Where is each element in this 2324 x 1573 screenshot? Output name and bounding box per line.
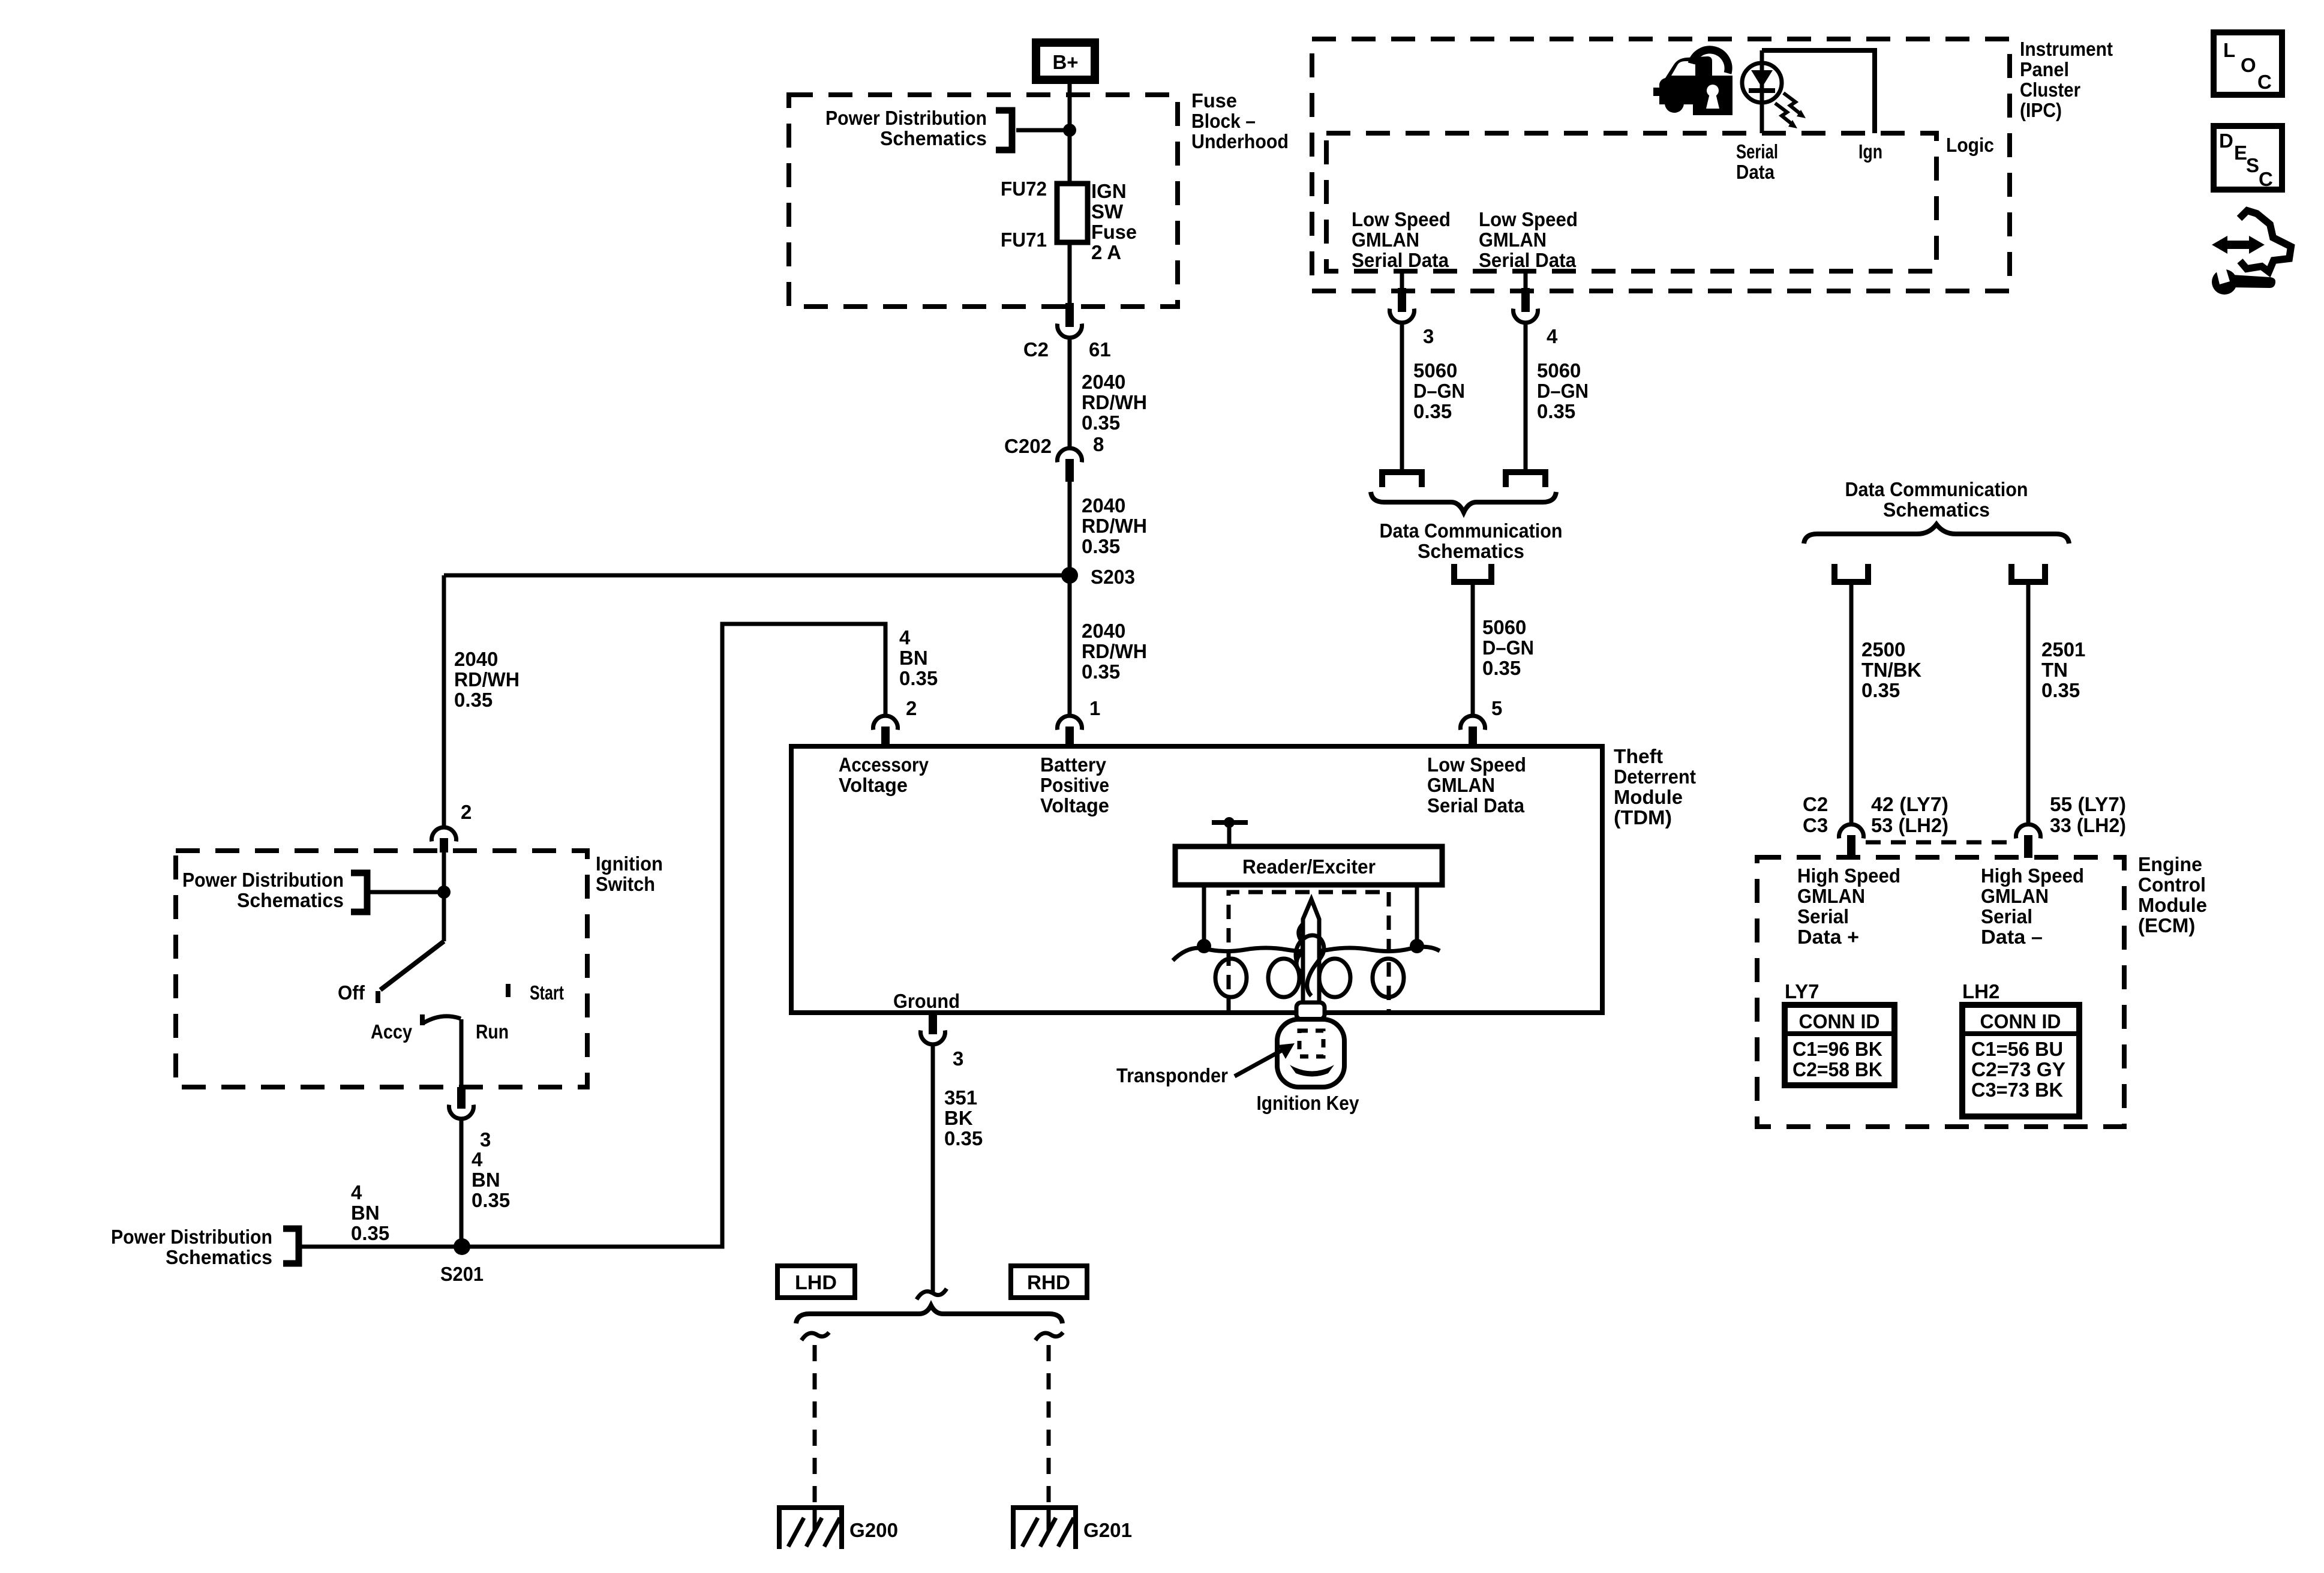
antenna symbol above Reader/Exciter xyxy=(1212,817,1248,846)
svg-text:SW: SW xyxy=(1091,200,1124,223)
svg-text:TN: TN xyxy=(2041,659,2068,681)
svg-text:CONN ID: CONN ID xyxy=(1799,1010,1880,1032)
svg-text:Low Speed: Low Speed xyxy=(1479,208,1578,230)
svg-text:D–GN: D–GN xyxy=(1537,380,1589,402)
transponder dashed square xyxy=(1299,1031,1323,1056)
label Power Distribution Schematics xyxy=(825,107,987,149)
svg-text:FU72: FU72 xyxy=(1001,178,1047,200)
svg-text:Serial Data: Serial Data xyxy=(1352,249,1449,271)
connector ignition switch pin 2 xyxy=(432,801,472,852)
svg-text:BN: BN xyxy=(472,1169,500,1191)
svg-text:Logic: Logic xyxy=(1946,134,1994,156)
svg-text:Schematics: Schematics xyxy=(237,889,344,911)
svg-text:D–GN: D–GN xyxy=(1413,380,1465,402)
label High Speed GMLAN Serial Data + xyxy=(1797,864,1900,948)
wire tap to bracket xyxy=(1016,128,1070,133)
ignition switch dashed box xyxy=(176,851,587,1087)
svg-text:0.35: 0.35 xyxy=(899,667,938,689)
label Data Communication Schematics (center) xyxy=(1380,520,1563,562)
label Engine Control Module (ECM) xyxy=(2138,853,2207,936)
label Transponder with arrow xyxy=(1116,1043,1295,1086)
svg-text:0.35: 0.35 xyxy=(351,1222,389,1244)
svg-text:0.35: 0.35 xyxy=(944,1127,983,1149)
svg-text:Control: Control xyxy=(2138,873,2206,896)
RHD option box xyxy=(1011,1266,1087,1298)
svg-text:0.35: 0.35 xyxy=(454,689,493,711)
coil loop 4 xyxy=(1373,959,1404,997)
svg-text:S201: S201 xyxy=(440,1263,484,1285)
svg-text:Low Speed: Low Speed xyxy=(1352,208,1451,230)
Accy contact xyxy=(371,1014,422,1043)
svg-text:C3=73 BK: C3=73 BK xyxy=(1971,1079,2063,1101)
svg-text:RD/WH: RD/WH xyxy=(1082,515,1147,537)
svg-text:Power Distribution: Power Distribution xyxy=(111,1226,272,1248)
label Data Communication Schematics (right) xyxy=(1845,478,2028,521)
svg-text:Low Speed: Low Speed xyxy=(1427,754,1526,776)
svg-text:Instrument: Instrument xyxy=(2020,38,2113,60)
LED indicator symbol xyxy=(1742,50,1782,133)
svg-text:42 (LY7): 42 (LY7) xyxy=(1871,793,1948,815)
svg-text:C2: C2 xyxy=(1023,338,1049,361)
svg-text:Schematics: Schematics xyxy=(166,1246,272,1268)
svg-text:2: 2 xyxy=(906,697,917,719)
svg-text:LH2: LH2 xyxy=(1962,980,1999,1002)
svg-text:0.35: 0.35 xyxy=(1537,400,1575,422)
bracket: Power Distribution Schematics reference (S201) xyxy=(283,1229,299,1263)
B+ battery terminal box xyxy=(1036,43,1095,80)
svg-text:4: 4 xyxy=(899,626,911,649)
svg-text:RHD: RHD xyxy=(1027,1271,1070,1293)
svg-text:(IPC): (IPC) xyxy=(2020,99,2062,121)
fuse FU72/FU71 IGN SW Fuse 2A xyxy=(1057,184,1088,242)
squiggle left ground lead xyxy=(801,1332,829,1340)
svg-text:Voltage: Voltage xyxy=(1040,794,1109,816)
svg-text:C2=73 GY: C2=73 GY xyxy=(1971,1058,2065,1080)
svg-text:GMLAN: GMLAN xyxy=(1352,229,1419,251)
svg-text:L: L xyxy=(2223,39,2235,61)
svg-text:Serial Data: Serial Data xyxy=(1427,794,1525,816)
ignition key blade xyxy=(1296,899,1324,1002)
wire S203 to TDM pin 1, circuit 2040 RD/WH 0.35 xyxy=(1068,575,1072,715)
connector ignition switch pin 3 xyxy=(449,1087,491,1151)
svg-text:GMLAN: GMLAN xyxy=(1479,229,1547,251)
svg-text:Start: Start xyxy=(530,981,564,1004)
svg-text:5060: 5060 xyxy=(1482,616,1526,638)
svg-text:D–GN: D–GN xyxy=(1482,637,1534,659)
label Low Speed GMLAN Serial Data (pin 3) xyxy=(1352,208,1451,271)
terminal bracket wire 3 xyxy=(1382,472,1422,487)
label Power Distribution Schematics (ignition) xyxy=(182,869,344,911)
svg-text:0.35: 0.35 xyxy=(2041,679,2080,701)
switch wiper blade to Off xyxy=(380,941,444,990)
wire C2 to C202, circuit 2040 RD/WH 0.35 xyxy=(1068,340,1072,446)
svg-text:Serial: Serial xyxy=(1736,140,1778,163)
svg-text:Accy: Accy xyxy=(371,1020,413,1043)
svg-text:351: 351 xyxy=(944,1086,977,1109)
label Power Distribution Schematics (S201) xyxy=(111,1226,272,1268)
svg-text:Data Communication: Data Communication xyxy=(1380,520,1563,542)
TDM box xyxy=(791,746,1602,1013)
svg-text:TN/BK: TN/BK xyxy=(1861,659,1921,681)
svg-text:Data: Data xyxy=(1736,161,1775,183)
svg-text:Cluster: Cluster xyxy=(2020,79,2080,101)
svg-text:FU71: FU71 xyxy=(1001,229,1047,251)
svg-text:Ground: Ground xyxy=(893,990,960,1012)
wire 5060 D-GN 0.35 to TDM pin 5 xyxy=(1471,585,1475,715)
label High Speed GMLAN Serial Data - xyxy=(1981,864,2084,948)
svg-text:O: O xyxy=(2241,54,2256,76)
svg-text:61: 61 xyxy=(1089,338,1111,361)
node S201 splice xyxy=(440,1238,484,1285)
LY7 CONN ID table xyxy=(1785,1005,1894,1085)
node right coil junction xyxy=(1410,939,1424,953)
label Instrument Panel Cluster (IPC) xyxy=(2020,38,2113,121)
ground G200 xyxy=(779,1507,898,1549)
svg-text:C202: C202 xyxy=(1004,435,1052,457)
wire B+ to fuse FU72 xyxy=(1068,80,1072,184)
svg-text:Ign: Ign xyxy=(1858,140,1882,163)
svg-text:55 (LY7): 55 (LY7) xyxy=(2050,793,2126,815)
bracket left data lead xyxy=(1834,564,1868,582)
svg-text:C1=56 BU: C1=56 BU xyxy=(1971,1038,2063,1060)
label 4 BN 0.35 (S201 left) xyxy=(351,1181,389,1244)
svg-text:Off: Off xyxy=(338,981,365,1004)
label Low Speed GMLAN Serial Data (TDM pin 5) xyxy=(1427,754,1526,816)
label Serial Data xyxy=(1736,140,1778,183)
svg-text:4: 4 xyxy=(351,1181,362,1203)
LOC reference box xyxy=(2214,32,2282,95)
svg-text:Serial Data: Serial Data xyxy=(1479,249,1577,271)
svg-text:Power Distribution: Power Distribution xyxy=(825,107,987,129)
svg-text:33 (LH2): 33 (LH2) xyxy=(2050,814,2126,836)
wire pin 2 into switch xyxy=(442,851,446,941)
svg-text:C: C xyxy=(2259,168,2273,190)
wire S203 to ignition switch (horizontal) xyxy=(444,574,1070,578)
fuse block dashed box xyxy=(789,95,1178,307)
svg-text:C1=96 BK: C1=96 BK xyxy=(1792,1038,1882,1060)
connector TDM pin 5 xyxy=(1461,697,1503,746)
IPC outer dashed box xyxy=(1312,39,2010,291)
svg-text:CONN ID: CONN ID xyxy=(1980,1010,2061,1032)
wire reader left leg xyxy=(1202,885,1206,946)
service/navigation icon: double arrow with wrench xyxy=(2212,211,2291,295)
wire tap to bracket xyxy=(370,890,444,894)
connector ECM pin 55/33 xyxy=(2016,824,2040,858)
svg-text:0.35: 0.35 xyxy=(1082,412,1120,434)
svg-text:Transponder: Transponder xyxy=(1116,1064,1228,1086)
svg-text:5060: 5060 xyxy=(1413,359,1457,382)
label pins 42/53 xyxy=(1871,793,1948,836)
label Low Speed GMLAN Serial Data (pin 4) xyxy=(1479,208,1578,271)
brace Data Communication Schematics xyxy=(1804,524,2069,544)
svg-text:High Speed: High Speed xyxy=(1797,864,1900,887)
Off contact xyxy=(338,981,378,1004)
label Ignition Switch xyxy=(596,852,663,895)
svg-text:2040: 2040 xyxy=(1082,494,1125,517)
bracket: Power Distribution Schematics reference xyxy=(996,110,1012,150)
coil loop 1 xyxy=(1215,959,1247,997)
wire-splice squiggle xyxy=(917,1289,947,1299)
bracket right data lead xyxy=(2011,564,2045,582)
svg-text:0.35: 0.35 xyxy=(1082,535,1120,557)
svg-text:Deterrent: Deterrent xyxy=(1614,766,1696,788)
brace LHD/RHD split xyxy=(796,1305,1062,1323)
svg-text:Serial: Serial xyxy=(1981,905,2032,927)
svg-text:LY7: LY7 xyxy=(1785,980,1819,1002)
coil loop 3 xyxy=(1319,959,1350,997)
LED radiation arrows xyxy=(1775,93,1806,128)
connector C2 pin 61 xyxy=(1023,303,1111,361)
svg-text:2040: 2040 xyxy=(1082,620,1125,642)
svg-text:0.35: 0.35 xyxy=(1861,679,1900,701)
ECM dashed box xyxy=(1757,857,2124,1127)
label C2 / C3 xyxy=(1803,793,1828,836)
svg-text:Module: Module xyxy=(2138,894,2207,916)
DESC reference box xyxy=(2214,126,2282,190)
svg-text:Switch: Switch xyxy=(596,873,655,895)
svg-text:8: 8 xyxy=(1093,433,1104,455)
svg-text:C3: C3 xyxy=(1803,814,1828,836)
terminal bracket wire 4 xyxy=(1506,472,1545,487)
wire 2501 TN 0.35 xyxy=(2026,585,2031,823)
svg-text:3: 3 xyxy=(480,1128,491,1151)
label 2040 RD/WH 0.35 (left branch) xyxy=(454,648,520,711)
wire pin 3 to split, circuit 351 BK 0.35 xyxy=(931,1046,935,1295)
svg-text:BN: BN xyxy=(351,1202,380,1224)
svg-text:S203: S203 xyxy=(1091,566,1135,588)
svg-text:Data –: Data – xyxy=(1981,926,2043,948)
wire S201 to power distribution bracket xyxy=(300,1245,462,1249)
svg-text:Underhood: Underhood xyxy=(1191,130,1289,152)
svg-text:Fuse: Fuse xyxy=(1191,89,1237,112)
wire 5060 D-GN 0.35 (pin 4) xyxy=(1524,325,1528,469)
connector C202 pin 8 xyxy=(1004,433,1104,482)
svg-text:0.35: 0.35 xyxy=(472,1189,510,1211)
svg-text:Block –: Block – xyxy=(1191,110,1256,132)
svg-text:E: E xyxy=(2234,142,2247,164)
node left coil junction xyxy=(1197,939,1211,953)
ground G201 xyxy=(1013,1507,1132,1549)
IPC Logic inner dashed box xyxy=(1326,133,1936,271)
label Accessory Voltage xyxy=(839,754,929,796)
svg-text:Schematics: Schematics xyxy=(880,127,987,149)
svg-text:Schematics: Schematics xyxy=(1883,499,1990,521)
bracket: Power Distribution Schematics reference (ignition) xyxy=(351,873,367,912)
dashed wire to G201 xyxy=(1047,1345,1051,1507)
ignition key head xyxy=(1277,1019,1344,1087)
svg-text:Data Communication: Data Communication xyxy=(1845,478,2028,500)
wire IPC pin 3 lead xyxy=(1400,271,1404,292)
svg-text:BK: BK xyxy=(944,1107,973,1129)
wire Run to pin 3 xyxy=(460,1019,464,1087)
svg-text:Theft: Theft xyxy=(1614,745,1663,767)
svg-text:GMLAN: GMLAN xyxy=(1427,774,1495,796)
svg-text:Panel: Panel xyxy=(2020,58,2069,80)
wire fuse to connector C2 xyxy=(1068,242,1072,308)
svg-text:2: 2 xyxy=(461,801,472,823)
svg-text:Run: Run xyxy=(476,1020,509,1043)
wire LED to Ign input xyxy=(1762,50,1875,133)
connector TDM pin 3 ground xyxy=(921,1013,964,1070)
svg-text:Schematics: Schematics xyxy=(1418,540,1524,562)
svg-text:Accessory: Accessory xyxy=(839,754,929,776)
connector IPC pin 4 xyxy=(1514,288,1559,347)
svg-text:(TDM): (TDM) xyxy=(1614,806,1672,828)
key head slot xyxy=(1290,1065,1334,1077)
svg-text:3: 3 xyxy=(1423,325,1434,347)
svg-text:B+: B+ xyxy=(1052,51,1078,73)
label Fuse Block - Underhood xyxy=(1191,89,1289,152)
svg-text:2040: 2040 xyxy=(1082,371,1125,393)
svg-text:3: 3 xyxy=(953,1047,963,1070)
svg-text:0.35: 0.35 xyxy=(1482,657,1521,679)
connector IPC pin 3 xyxy=(1390,288,1434,347)
ignition key neck xyxy=(1296,1002,1325,1019)
svg-text:BN: BN xyxy=(899,647,928,669)
security indicator icon: car with padlock xyxy=(1653,50,1733,115)
svg-text:2040: 2040 xyxy=(454,648,498,670)
svg-text:Ignition Key: Ignition Key xyxy=(1257,1092,1360,1114)
wire IPC pin 4 lead xyxy=(1524,271,1528,292)
transponder field dashed box xyxy=(1229,892,1389,1013)
svg-text:5060: 5060 xyxy=(1537,359,1581,382)
wire C202 to S203, circuit 2040 RD/WH 0.35 xyxy=(1068,482,1072,575)
svg-text:RD/WH: RD/WH xyxy=(454,668,520,691)
LH2 CONN ID table xyxy=(1962,1005,2079,1116)
wire 2500 TN/BK 0.35 xyxy=(1849,585,1854,823)
connector TDM pin 1 xyxy=(1058,697,1101,746)
bracket from Data Communication Schematics xyxy=(1454,564,1491,582)
dashed wire to G200 xyxy=(813,1345,817,1507)
svg-text:53 (LH2): 53 (LH2) xyxy=(1871,814,1948,836)
svg-text:S: S xyxy=(2246,154,2259,176)
svg-text:GMLAN: GMLAN xyxy=(1981,885,2049,907)
svg-text:C2=58 BK: C2=58 BK xyxy=(1792,1058,1882,1080)
svg-text:C2: C2 xyxy=(1803,793,1828,815)
svg-text:0.35: 0.35 xyxy=(1413,400,1452,422)
connector TDM pin 2 xyxy=(873,697,917,746)
svg-text:Serial: Serial xyxy=(1797,905,1849,927)
svg-text:Module: Module xyxy=(1614,786,1683,808)
connector ECM pin 42/53 xyxy=(1839,824,1864,858)
svg-text:2 A: 2 A xyxy=(1091,241,1121,263)
svg-text:RD/WH: RD/WH xyxy=(1082,640,1147,662)
label Battery Positive Voltage xyxy=(1040,754,1109,816)
svg-text:2501: 2501 xyxy=(2041,638,2085,661)
svg-text:Positive: Positive xyxy=(1040,774,1109,796)
svg-text:1: 1 xyxy=(1089,697,1100,719)
svg-text:Battery: Battery xyxy=(1040,754,1107,776)
svg-text:Ignition: Ignition xyxy=(596,852,663,875)
svg-text:D: D xyxy=(2219,130,2233,152)
label Theft Deterrent Module (TDM) xyxy=(1614,745,1696,828)
svg-text:IGN: IGN xyxy=(1091,180,1127,202)
svg-text:0.35: 0.35 xyxy=(1082,661,1120,683)
svg-text:4: 4 xyxy=(472,1148,483,1170)
svg-text:(ECM): (ECM) xyxy=(2138,914,2195,936)
LHD option box xyxy=(777,1266,855,1298)
wire 5060 D-GN 0.35 (pin 3) xyxy=(1400,325,1404,469)
node S203 splice xyxy=(1061,566,1135,588)
label pins 55/33 xyxy=(2050,793,2126,836)
wire down to ignition switch pin 2 xyxy=(442,575,446,826)
squiggle right ground lead xyxy=(1035,1332,1063,1340)
svg-text:Reader/Exciter: Reader/Exciter xyxy=(1242,855,1376,878)
coil loop 2 xyxy=(1268,959,1299,997)
svg-text:Fuse: Fuse xyxy=(1091,221,1137,243)
svg-text:Data +: Data + xyxy=(1797,926,1859,948)
Reader/Exciter box xyxy=(1175,846,1442,885)
svg-text:GMLAN: GMLAN xyxy=(1797,885,1865,907)
svg-text:Power Distribution: Power Distribution xyxy=(182,869,344,891)
svg-text:G201: G201 xyxy=(1083,1519,1132,1541)
svg-text:High Speed: High Speed xyxy=(1981,864,2084,887)
dashed connector link C2/C3 xyxy=(1866,840,2014,845)
svg-text:C: C xyxy=(2257,71,2272,93)
svg-text:RD/WH: RD/WH xyxy=(1082,391,1147,413)
node: power distribution tap xyxy=(1063,124,1076,137)
label 4 BN 0.35 (TDM pin 2) xyxy=(899,626,938,689)
svg-text:5: 5 xyxy=(1491,697,1502,719)
svg-text:4: 4 xyxy=(1547,325,1558,347)
node: switch feed tap xyxy=(437,885,451,899)
Start contact xyxy=(508,981,564,1004)
wire reader right leg xyxy=(1415,885,1419,946)
coil wavy line xyxy=(1173,947,1440,960)
svg-text:Engine: Engine xyxy=(2138,853,2202,875)
wire S201 to TDM pin 2 (right, up and over) xyxy=(462,624,885,1247)
svg-text:LHD: LHD xyxy=(795,1271,837,1293)
Run contact arc xyxy=(424,1016,461,1023)
svg-text:G200: G200 xyxy=(849,1519,898,1541)
svg-text:Voltage: Voltage xyxy=(839,774,908,796)
brace to Data Communication Schematics xyxy=(1371,492,1556,512)
svg-text:2500: 2500 xyxy=(1861,638,1905,661)
wire pin 3 to S201, circuit 4 BN 0.35 xyxy=(460,1121,464,1247)
